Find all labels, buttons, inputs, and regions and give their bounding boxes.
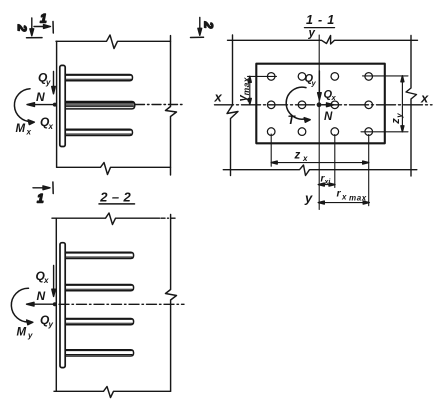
extension line from hole r3c3 [334, 135, 336, 188]
svg-text:z: z [390, 118, 402, 125]
label Qy (elevation) [38, 71, 51, 88]
view 2-2 plan: top edge with break [52, 213, 160, 225]
label Qx (plan 2-2) [36, 269, 50, 285]
svg-text:N: N [36, 90, 45, 104]
svg-text:T: T [288, 113, 297, 127]
x axis centerline [215, 104, 433, 106]
dimension y_max line [248, 76, 251, 104]
svg-text:x: x [43, 276, 49, 285]
svg-text:1: 1 [37, 192, 44, 206]
bolt hole r2c4 [365, 101, 373, 109]
title 2-2 [99, 190, 135, 205]
extension line from hole r3c4 [368, 135, 370, 206]
svg-text:1: 1 [40, 12, 47, 26]
hole tick r1c4 to zy extension [363, 75, 409, 77]
bolt col 4 (plan 2-2) [65, 350, 133, 356]
svg-text:y: y [304, 191, 313, 206]
moment My arc [11, 288, 33, 325]
bolt row 2 middle (elevation) [65, 102, 135, 109]
svg-text:max: max [241, 76, 251, 95]
bolt row 3 (elevation) [65, 129, 132, 135]
center node dot (plan 1-1) [317, 102, 322, 107]
node dot (plan 2-2) [53, 302, 57, 306]
force Qy arrow (plan 1-1) [318, 71, 322, 100]
centerline (elevation) [136, 104, 184, 106]
title 1-1 [306, 13, 335, 27]
hole tick r1c1 [248, 75, 277, 77]
label y_max (rotated) [238, 76, 252, 102]
moment T arc [286, 87, 310, 122]
axis label y (top) [308, 28, 316, 40]
view 2-2 elevation: top edge with break [56, 35, 171, 49]
view 2-2 elevation: bottom edge with break [57, 163, 171, 175]
label Qx (elevation) [40, 115, 54, 131]
svg-text:y: y [311, 79, 317, 88]
bolt hole r1c1 [267, 73, 275, 81]
label Qx (plan 1-1) [324, 89, 337, 103]
plan view: bottom edge line with break [223, 165, 416, 176]
svg-text:y: y [27, 331, 33, 340]
bolt col 1 (plan 2-2) [65, 252, 133, 258]
view 2-2 plan: bottom edge with break [54, 387, 171, 398]
section mark 2 (right) arrow [191, 17, 204, 37]
section mark 2 (left) arrow [27, 18, 43, 38]
svg-text:y: y [45, 78, 51, 87]
plan view: right column flange line with break [406, 36, 417, 177]
bolt col 2 (plan 2-2) [65, 285, 133, 291]
plan view: left column flange line with break [227, 35, 238, 176]
plan view: top edge line with break [228, 36, 418, 45]
bolt hole r2c3 [331, 101, 339, 109]
svg-text:y: y [48, 320, 54, 329]
svg-text:max: max [349, 194, 367, 203]
dimension z_x line [271, 161, 369, 164]
svg-text:1 - 1: 1 - 1 [306, 13, 335, 27]
bolt hole r3c1 [267, 128, 275, 136]
bolt row 1 (elevation) [65, 75, 132, 81]
svg-text:x: x [214, 90, 223, 105]
svg-text:2: 2 [201, 21, 215, 29]
base plate (elevation) [60, 65, 65, 146]
hole tick r3c4 to zy extension [361, 131, 408, 133]
view 2-2 plan: right column line with break [166, 215, 177, 392]
bolt col 3 (plan 2-2) [65, 319, 133, 325]
svg-text:M: M [17, 327, 27, 339]
label r_x,max [337, 188, 367, 203]
bolt hole r2c2 [298, 101, 306, 109]
extension line from hole r3c1 [270, 134, 272, 166]
svg-text:2–2: 2–2 [99, 190, 135, 205]
axis label x (right) [420, 91, 429, 106]
label Qy (plan 1-1) [305, 73, 317, 88]
view 2-2 elevation: right column line with break [166, 36, 177, 175]
svg-text:y: y [395, 113, 404, 119]
label Qy (plan 2-2) [40, 313, 54, 329]
bolt hole r2c1 [267, 101, 275, 109]
label z_x [294, 150, 309, 164]
force Qx arrow (plan 2-2) [52, 266, 56, 297]
svg-text:N: N [324, 111, 333, 123]
dimension r_x,max line [318, 201, 369, 204]
label z_y (rotated) [390, 113, 404, 125]
svg-text:x: x [26, 128, 32, 137]
bolt hole r3c4 [365, 128, 373, 136]
svg-text:xi: xi [324, 179, 332, 186]
svg-text:x: x [341, 193, 347, 202]
view 2-2 plan: top edge centerline continuation [161, 217, 175, 219]
force N arrow (elevation) [27, 103, 55, 107]
y axis line [318, 35, 320, 210]
svg-text:z: z [294, 150, 301, 162]
svg-text:M: M [16, 123, 26, 135]
bolt hole r1c4 [365, 73, 373, 81]
svg-text:r: r [337, 188, 342, 200]
svg-text:x: x [302, 154, 308, 163]
base plate (plan 2-2) [60, 243, 65, 368]
axis label y (bottom) [304, 191, 313, 206]
svg-text:N: N [37, 289, 46, 303]
label T [288, 113, 297, 127]
svg-text:x: x [420, 91, 429, 106]
section mark 1 (top) arrow [34, 22, 53, 34]
bolt hole r1c3 [331, 73, 339, 81]
moment Mx arc [14, 89, 34, 125]
label N (plan 1-1) [324, 111, 333, 123]
view 2-2 plan: left column face line [55, 218, 57, 391]
svg-text:2: 2 [15, 24, 29, 32]
label My [17, 327, 34, 341]
base plate outline (plan 1-1) [256, 64, 385, 144]
svg-text:y: y [308, 28, 316, 40]
label N (plan 2-2) [37, 289, 46, 303]
force N arrow (plan 2-2) [27, 302, 55, 306]
axis label x (left) [214, 90, 223, 105]
section mark 1 (bottom) arrow [33, 182, 53, 194]
node dot (elevation) [53, 103, 57, 107]
centerline (plan 2-2) [59, 303, 184, 305]
label N (elevation) [36, 90, 45, 104]
dimension z_y line [401, 76, 404, 132]
svg-text:x: x [331, 93, 337, 102]
bolt hole r1c2 [298, 73, 306, 81]
dimension r_xi line [318, 183, 335, 186]
bolt hole r3c3 [331, 128, 339, 136]
label r_xi [321, 174, 332, 187]
label Mx [16, 123, 32, 137]
bolt hole r3c2 [298, 128, 306, 136]
force Qx arrow (plan 1-1) [319, 103, 333, 107]
force Qy arrow (elevation) [52, 72, 56, 94]
view 2-2 elevation: left column face line [56, 41, 58, 167]
svg-text:x: x [48, 122, 54, 131]
